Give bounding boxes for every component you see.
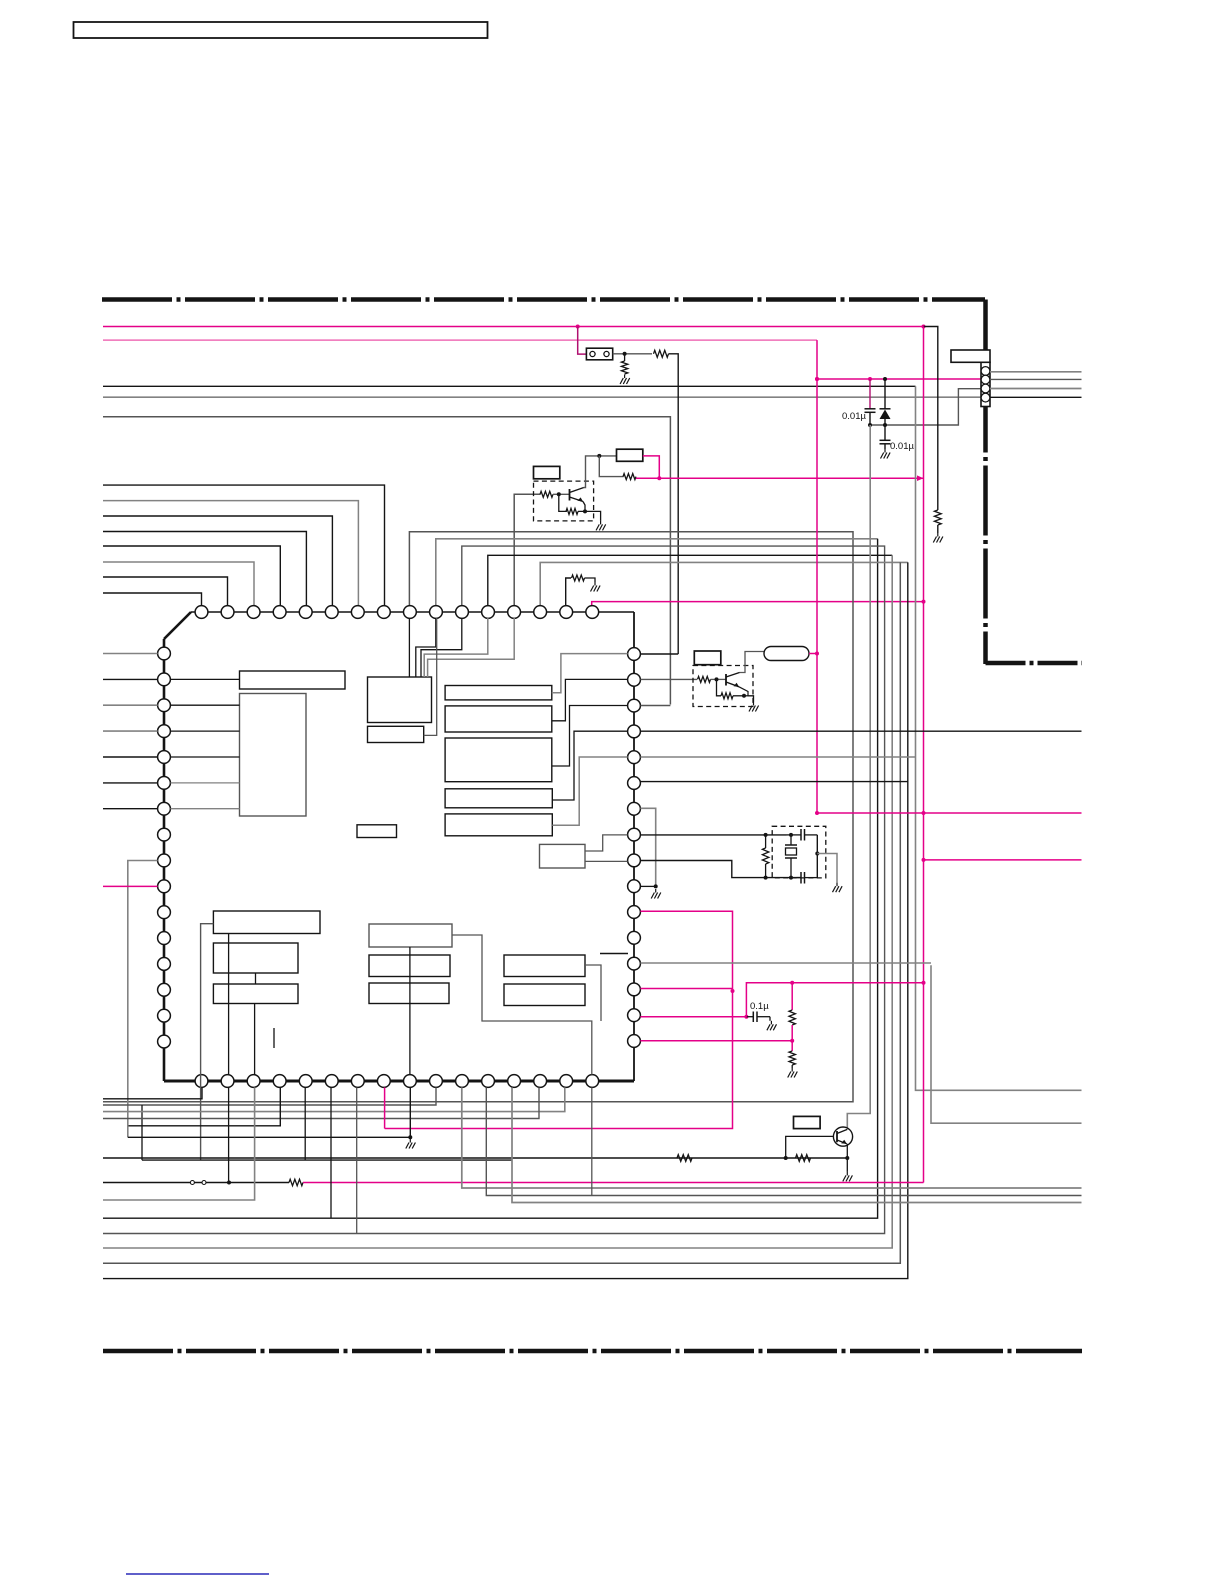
wire L to bottom pin2 bbox=[228, 934, 230, 1075]
wire left stub 3 bbox=[103, 704, 158, 706]
wire out 2 bbox=[990, 378, 1082, 380]
resistor R row1183 bbox=[289, 1179, 303, 1185]
dashed box Q1 bbox=[534, 481, 594, 521]
block P bbox=[369, 955, 450, 977]
resistor R magenta lower bbox=[789, 1041, 795, 1068]
wire magenta vert 817 bbox=[815, 340, 819, 813]
connector block label box bbox=[951, 350, 990, 362]
wire magenta drop to CN bbox=[578, 327, 587, 355]
wire out 4 bbox=[990, 396, 1082, 398]
wire N to bottom pin3 bbox=[254, 1004, 256, 1075]
wire pin12 line bbox=[103, 555, 892, 1248]
wire pin12 jog into C bbox=[424, 618, 488, 677]
wire fan line 8 bbox=[103, 593, 202, 606]
wire pin13 drop bbox=[512, 1087, 1082, 1202]
wire pin r4 long bbox=[640, 730, 1081, 732]
stray mark bbox=[273, 1028, 275, 1048]
wire magenta pin16 bbox=[592, 600, 926, 606]
label 0.1u bbox=[750, 1001, 769, 1012]
resistor R feedback Q2 bbox=[717, 679, 734, 698]
wire fan line 7 bbox=[103, 577, 228, 606]
wire base node bbox=[553, 492, 570, 496]
block O bbox=[369, 924, 452, 947]
block J bbox=[357, 825, 397, 838]
wire left stub 6 bbox=[103, 782, 158, 784]
wire vertical x915 bbox=[916, 386, 1082, 1090]
block E bbox=[445, 686, 552, 700]
block L bbox=[213, 911, 320, 934]
wire D out bbox=[424, 618, 437, 735]
wire pin r3 bbox=[640, 705, 670, 707]
wire node to connector bbox=[868, 389, 981, 427]
wire F to pin bbox=[552, 679, 628, 720]
wire B feed 4 bbox=[170, 782, 239, 784]
wire magenta left pin10 bbox=[103, 885, 158, 887]
dashed box X1 bbox=[772, 826, 826, 878]
wire collector Q2 bbox=[740, 652, 765, 673]
wire pin r8 bbox=[640, 833, 793, 837]
wire O out bbox=[452, 935, 592, 1075]
block F bbox=[445, 706, 552, 732]
wire magenta from box U bbox=[643, 456, 660, 478]
wire magenta row 1128 bbox=[384, 1087, 386, 1128]
wire pin9 line bbox=[103, 532, 853, 1102]
IC U1 outline bbox=[164, 612, 634, 1081]
capacitor C top bbox=[787, 829, 818, 841]
block H bbox=[445, 789, 552, 808]
block C bbox=[368, 677, 432, 723]
wire B feed 5 bbox=[170, 808, 239, 810]
block Q bbox=[369, 983, 449, 1004]
wire magenta row 860 bbox=[922, 858, 1082, 862]
wire vertical x870 bbox=[847, 425, 870, 1127]
wire magenta pin r14 bbox=[640, 1015, 748, 1019]
connector block body bbox=[981, 362, 990, 406]
wire CN to resistor bbox=[613, 352, 652, 356]
capacitor C 0.1u bbox=[746, 1012, 770, 1023]
block B bbox=[240, 694, 307, 817]
wire magenta pin r11 bbox=[385, 911, 735, 1128]
ground bbox=[843, 1172, 853, 1182]
wire to ground bbox=[585, 578, 596, 582]
wire A feed bbox=[170, 678, 239, 680]
transistor Q2 bbox=[726, 673, 740, 687]
wire emitter node bbox=[578, 502, 601, 521]
block R bbox=[504, 955, 585, 977]
ground bbox=[596, 521, 606, 531]
wire pin10 line bbox=[103, 539, 878, 1218]
wire R out bbox=[256, 965, 602, 1021]
wire left stub 4 bbox=[103, 730, 158, 732]
wire out 1 bbox=[990, 371, 1082, 373]
wire magenta pin r13 bbox=[640, 962, 931, 964]
wire fan line 3 bbox=[103, 516, 332, 606]
resistor R2 bbox=[623, 474, 636, 480]
wire row 1183 left bbox=[103, 1181, 289, 1185]
wire base node Q2 bbox=[711, 677, 727, 681]
block S bbox=[504, 984, 585, 1006]
wire left stub 2 bbox=[103, 678, 158, 680]
wire pin12 drop bbox=[486, 1087, 1081, 1195]
blue rule bbox=[126, 1573, 269, 1575]
wire B feed 2 bbox=[170, 730, 239, 732]
connector hole 3 bbox=[981, 384, 990, 393]
ground bbox=[749, 702, 759, 712]
wire vertical x931 bbox=[931, 965, 1082, 1123]
wire row 1119 bbox=[103, 1087, 539, 1118]
wire pin14 line bbox=[103, 562, 908, 1278]
block K bbox=[540, 844, 586, 868]
resistor R osc bbox=[762, 835, 768, 878]
resistor R base Q2 bbox=[698, 676, 711, 682]
label box Q3 bbox=[794, 1116, 821, 1128]
wire pin9 into C bbox=[408, 618, 410, 677]
wire pin2 drop bbox=[228, 1087, 230, 1182]
wire pin11 line bbox=[103, 546, 885, 1233]
wire row 1126 bbox=[129, 1087, 281, 1125]
block I bbox=[445, 814, 552, 836]
resistor R base bbox=[540, 491, 553, 497]
wire row 1105 bbox=[103, 1087, 436, 1160]
wire magenta row 813 bbox=[815, 811, 1082, 815]
ground bbox=[881, 449, 891, 459]
connector hole 1 bbox=[981, 367, 990, 376]
wire row 1137 bbox=[128, 1087, 413, 1139]
ground bbox=[620, 375, 630, 385]
wire K upper bbox=[585, 835, 628, 851]
board boundary right notch (dash-dot) bbox=[986, 661, 1083, 666]
wire resistor to vertical bbox=[669, 354, 679, 654]
wire emitter Q2 bbox=[733, 687, 754, 702]
resistor R3 feedback bbox=[559, 494, 578, 514]
capacitor C2 0.01u bbox=[880, 425, 891, 449]
wire left stub 5 bbox=[103, 756, 158, 758]
wire H to pin bbox=[552, 731, 627, 800]
wire magenta pin r15 bbox=[640, 1039, 794, 1043]
gray bus bbox=[103, 396, 981, 398]
resonator X (pill) bbox=[764, 647, 809, 661]
block A bbox=[240, 671, 346, 689]
wire pin r6 bbox=[640, 781, 907, 783]
wire magenta to rail bbox=[636, 475, 924, 481]
wire drop to resistor bbox=[599, 456, 623, 477]
connector CN (2 holes) bbox=[586, 348, 612, 360]
board boundary right (dash-dot) bbox=[983, 300, 988, 665]
wire bottom node bbox=[764, 876, 801, 880]
transistor Q1 bbox=[570, 488, 584, 502]
IC bottom pins bbox=[195, 1075, 599, 1088]
label 0.01u bbox=[842, 411, 866, 422]
magenta bus 2 bbox=[103, 339, 817, 341]
resistor R4 bbox=[572, 575, 585, 581]
wire from pin15 bbox=[566, 578, 571, 612]
wire pin r7 bbox=[640, 808, 655, 886]
wire magenta rail bbox=[922, 327, 926, 1183]
wire left stub 1 bbox=[103, 653, 158, 655]
wire base line Q3 bbox=[103, 1156, 849, 1160]
wire magenta bus3 bbox=[815, 377, 981, 381]
crystal X1 bbox=[785, 835, 797, 878]
wire row 1200 bbox=[103, 1087, 255, 1200]
ground bbox=[406, 1139, 416, 1149]
wire row 1099 bbox=[103, 1087, 202, 1098]
transistor Q3 bbox=[833, 1127, 852, 1146]
IC left pins bbox=[158, 647, 171, 1048]
wire left pin9 hook bbox=[128, 861, 158, 1138]
wire out 3 bbox=[990, 388, 1082, 390]
wire fan line 1 bbox=[103, 485, 385, 606]
dashed box Q2 bbox=[693, 666, 753, 707]
capacitor C 0.01u bbox=[865, 379, 876, 425]
resistor R vertical bbox=[934, 510, 941, 525]
wire fan line 4 bbox=[103, 532, 306, 607]
wire fan line 5 bbox=[103, 546, 280, 606]
wire pin r1 bbox=[640, 653, 678, 655]
wire row 1160 bbox=[142, 1087, 512, 1160]
wire pin6 drop bbox=[330, 1087, 332, 1218]
wire E to pin bbox=[552, 654, 628, 693]
svg-text:0.1µ: 0.1µ bbox=[750, 1001, 769, 1012]
board boundary top (dash-dot) bbox=[102, 297, 985, 302]
wire left stub 7 bbox=[103, 808, 158, 810]
wire fan line 6 bbox=[103, 562, 254, 606]
wire magenta row 1183 bbox=[303, 1182, 924, 1184]
resistor R base1 Q3 bbox=[677, 1155, 692, 1162]
capacitor C bottom bbox=[797, 872, 818, 884]
wire I to pin bbox=[552, 757, 627, 825]
wire pin r2 to Q2 bbox=[640, 678, 697, 680]
wire magenta pin r12 bbox=[640, 988, 732, 990]
wire O to bottom pin9 bbox=[409, 947, 411, 1075]
wire pin r10 gnd bbox=[640, 884, 660, 898]
label 0.01u bbox=[890, 441, 914, 452]
ground bbox=[788, 1068, 798, 1078]
wire collector up bbox=[584, 454, 617, 488]
wire pin7 drop bbox=[356, 1087, 358, 1233]
wire to ground bbox=[937, 525, 939, 533]
wire vertical from magenta bus bbox=[924, 327, 938, 511]
ground bbox=[933, 533, 943, 543]
wire B feed 1 bbox=[170, 704, 239, 706]
block G bbox=[445, 738, 552, 782]
wire base drop Q3 bbox=[786, 1136, 835, 1158]
black bus 2 bbox=[103, 417, 670, 705]
board boundary bottom (dash-dot) bbox=[103, 1349, 1082, 1354]
resistor R (horizontal) bbox=[654, 350, 669, 357]
IC top pins bbox=[195, 606, 599, 619]
wire emitter Q3 bbox=[846, 1144, 848, 1172]
wire pin16 drop bbox=[591, 1087, 593, 1195]
wire pin r5 bbox=[640, 756, 915, 758]
wire pin11 drop bbox=[462, 1087, 1082, 1188]
resistor R base2 Q3 bbox=[796, 1155, 811, 1162]
block M bbox=[213, 943, 298, 973]
block D bbox=[368, 726, 424, 742]
title box (empty, top-left) bbox=[74, 22, 488, 38]
wire to ground X1 bbox=[817, 854, 837, 883]
connector hole 2 bbox=[981, 375, 990, 384]
IC right pins bbox=[628, 648, 641, 1048]
black bus bbox=[103, 385, 916, 387]
svg-text:0.01µ: 0.01µ bbox=[890, 441, 914, 452]
wire pin10 jog into C bbox=[416, 618, 436, 677]
wire magenta resonator bbox=[809, 653, 817, 655]
wire base feed from pin13 bbox=[514, 494, 540, 612]
wire L hook bbox=[201, 924, 214, 1160]
wire right node X1 bbox=[815, 835, 819, 878]
diode D bbox=[880, 379, 891, 425]
ground bbox=[767, 1021, 777, 1031]
wire magenta 983 row bbox=[746, 981, 923, 1017]
block N bbox=[213, 984, 298, 1004]
connector hole 4 bbox=[981, 393, 990, 402]
wire pin r9 bbox=[640, 861, 765, 878]
wire fan line 2 bbox=[103, 501, 358, 606]
resistor R (vertical) below CN bbox=[621, 354, 627, 374]
label box U bbox=[617, 449, 643, 461]
svg-text:0.01µ: 0.01µ bbox=[842, 411, 866, 422]
wire B feed 3 bbox=[170, 756, 239, 758]
resistor R magenta upper bbox=[789, 983, 795, 1041]
stub line bbox=[600, 953, 628, 955]
wire row 1112 bbox=[103, 1087, 565, 1111]
wire pin13 jog into C bbox=[428, 618, 515, 677]
label box Q1 bbox=[534, 466, 560, 478]
ground bbox=[833, 883, 843, 893]
wire K lower bbox=[585, 860, 628, 862]
magenta bus 1 bbox=[103, 325, 926, 329]
wire G to pin bbox=[552, 706, 628, 767]
ground bbox=[591, 582, 601, 592]
wire pin11 jog into C bbox=[421, 618, 462, 677]
label box Q2 bbox=[694, 651, 721, 665]
